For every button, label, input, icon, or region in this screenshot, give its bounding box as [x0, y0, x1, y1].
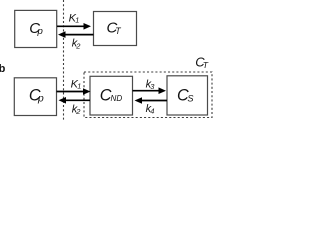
- dashed vertical line (blood-brain barrier): [63, 0, 65, 120]
- label k4: [146, 103, 155, 116]
- arrow K1 (bottom, Cp to CND): [57, 88, 91, 95]
- arrow k2 (top, CT to Cp): [58, 31, 94, 38]
- label Cp (bottom): [29, 86, 44, 104]
- arrow k2 (bottom, CND to Cp): [59, 97, 91, 104]
- label K1 (bottom): [71, 78, 82, 90]
- label CT (top): [107, 19, 122, 36]
- label CND: [100, 87, 123, 105]
- svg-text:ND: ND: [111, 94, 123, 103]
- svg-text:b: b: [0, 63, 6, 75]
- svg-text:1: 1: [77, 81, 81, 90]
- label CS: [177, 86, 194, 104]
- label Cp (top): [29, 20, 43, 37]
- svg-text:p: p: [37, 94, 44, 105]
- label K1 (top): [69, 12, 80, 24]
- label k3: [146, 78, 156, 91]
- box Cp (bottom): [14, 78, 56, 116]
- svg-text:2: 2: [75, 41, 81, 50]
- arrow K1 (top, Cp to CT): [57, 23, 91, 30]
- box CS: [167, 76, 208, 115]
- svg-text:T: T: [203, 60, 209, 70]
- svg-text:2: 2: [75, 107, 81, 116]
- svg-text:4: 4: [150, 107, 154, 116]
- arrow k3 (CND to CS): [133, 87, 167, 94]
- label k2 (top): [72, 38, 82, 51]
- svg-text:S: S: [187, 94, 194, 104]
- box CT (top): [94, 12, 137, 46]
- box Cp (top): [15, 10, 57, 47]
- dashed box (tissue compartment): [84, 72, 212, 118]
- label CT (bottom, above dashed box): [195, 55, 209, 70]
- svg-text:1: 1: [75, 15, 79, 24]
- box CND: [90, 76, 133, 115]
- arrow k4 (CS to CND): [135, 97, 168, 104]
- label k2 (bottom): [72, 104, 82, 117]
- svg-text:T: T: [115, 26, 121, 36]
- svg-text:p: p: [37, 26, 44, 37]
